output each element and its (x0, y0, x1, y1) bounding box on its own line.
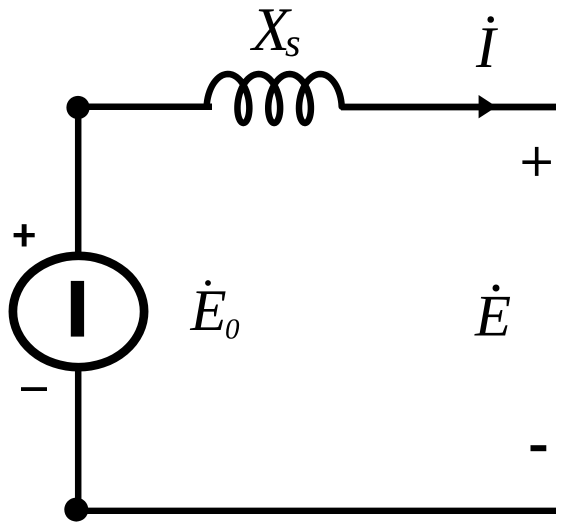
minus sign terminal (531, 445, 547, 451)
wire left vertical lower (75, 368, 82, 510)
node A top-left junction dot (66, 96, 89, 119)
wire top-right horizontal (341, 104, 556, 111)
svg-text:E: E (474, 283, 511, 349)
svg-text:s: s (285, 20, 301, 65)
node B bottom-left junction dot (64, 498, 88, 522)
current arrow head (479, 95, 497, 118)
wire top-left horizontal (78, 104, 212, 111)
minus sign source bottom (21, 387, 47, 391)
svg-text:E: E (190, 277, 227, 343)
source E0 inner bar (71, 281, 84, 337)
plus sign source top (14, 233, 35, 237)
label I dot (current) (487, 16, 494, 23)
label E0 dot (205, 280, 211, 286)
wire left vertical upper (75, 104, 82, 256)
svg-text:I: I (475, 14, 498, 80)
plus sign terminal (522, 160, 551, 164)
source E0 circle (13, 256, 144, 367)
inductor Xs coil (207, 74, 342, 123)
svg-text:0: 0 (225, 314, 240, 346)
wire bottom horizontal (76, 508, 556, 514)
label E dot (terminal) (493, 285, 500, 292)
